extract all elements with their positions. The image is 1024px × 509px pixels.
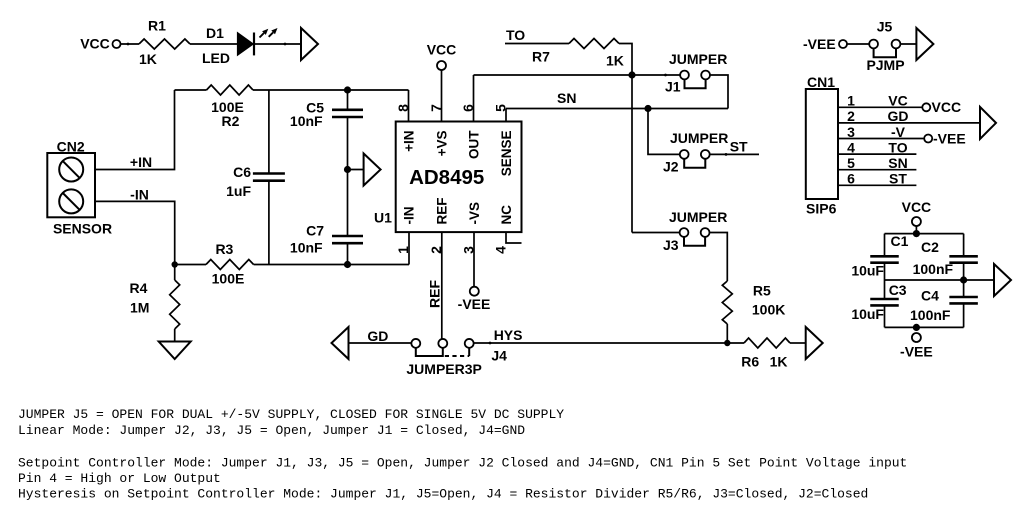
wire R2 to pin8	[253, 89, 409, 91]
wire +IN	[95, 90, 175, 170]
svg-text:1M: 1M	[130, 300, 149, 316]
junction C5/C7 ground	[344, 166, 351, 173]
junction top wire / C5	[344, 86, 351, 93]
svg-text:+IN: +IN	[402, 131, 417, 152]
svg-text:REF: REF	[427, 280, 443, 308]
wire R3 to pin1	[254, 264, 409, 266]
svg-text:JUMPER J5 = OPEN FOR DUAL +/-5: JUMPER J5 = OPEN FOR DUAL +/-5V SUPPLY, …	[18, 407, 564, 422]
wire J5 to ground	[900, 43, 916, 45]
ground (GD)	[332, 327, 349, 359]
svg-text:10nF: 10nF	[290, 240, 323, 256]
junction R5/HYS	[724, 340, 730, 346]
wire junction to ground	[348, 169, 364, 171]
pin mark (J1 left wire)	[664, 74, 667, 77]
jumper J5	[869, 40, 878, 49]
wire VCC to R1	[121, 43, 140, 45]
wire J1 to SN	[710, 75, 728, 109]
svg-text:J3: J3	[663, 237, 679, 253]
svg-text:C4: C4	[921, 288, 939, 304]
svg-text:JUMPER: JUMPER	[669, 51, 727, 67]
jumper J1	[680, 71, 689, 80]
wire cap mid rail	[885, 279, 964, 281]
svg-text:1: 1	[395, 246, 411, 254]
wire node to R3	[175, 264, 206, 266]
svg-text:JUMPER: JUMPER	[670, 130, 728, 146]
capacitor C7	[347, 170, 349, 236]
ground (mid)	[364, 154, 381, 186]
capacitor C1	[884, 234, 886, 256]
svg-text:GD: GD	[888, 108, 909, 124]
wire R7 to OUT net	[619, 44, 632, 233]
svg-text:C2: C2	[921, 239, 939, 255]
svg-text:CN1: CN1	[807, 74, 835, 90]
svg-text:U1: U1	[374, 210, 392, 226]
capacitor C5	[347, 90, 349, 109]
svg-text:SIP6: SIP6	[806, 201, 837, 217]
power terminal -VEE (CN1 pin3)	[924, 135, 932, 143]
svg-text:LED: LED	[202, 50, 230, 66]
resistor R4	[174, 265, 176, 281]
svg-text:VCC: VCC	[80, 36, 110, 52]
svg-text:-V: -V	[891, 124, 906, 140]
power terminal -VEE (caps)	[912, 333, 921, 342]
svg-text:R2: R2	[222, 113, 240, 129]
jumper3p J4 link 1-2 (closed)	[416, 348, 443, 356]
svg-text:-IN: -IN	[402, 207, 417, 225]
svg-text:+VS: +VS	[435, 131, 450, 157]
svg-text:C1: C1	[891, 233, 909, 249]
CN1 pin 1 (VC)	[838, 106, 922, 108]
svg-text:SENSOR: SENSOR	[53, 221, 112, 237]
pin mark (LED right)	[284, 43, 287, 46]
resistor R5	[722, 281, 732, 324]
ground (caps)	[994, 264, 1011, 296]
svg-text:6: 6	[460, 104, 476, 112]
wire D1 to ground	[254, 43, 301, 45]
wire VCC to rails	[915, 226, 917, 234]
CN1 pin 6 (ST)	[838, 184, 916, 186]
wire mid rail to ground	[964, 279, 994, 281]
svg-text:100E: 100E	[212, 271, 245, 287]
wire J2 to ST	[710, 153, 759, 155]
svg-text:PJMP: PJMP	[866, 57, 904, 73]
wire R4 to ground	[174, 329, 176, 342]
resistor R1	[139, 39, 190, 49]
svg-text:8: 8	[395, 104, 411, 112]
svg-text:100nF: 100nF	[910, 307, 951, 323]
svg-text:REF: REF	[435, 198, 450, 225]
svg-text:Linear Mode: Jumper J2, J3, J5: Linear Mode: Jumper J2, J3, J5 = Open, J…	[18, 423, 525, 438]
resistor R6	[744, 338, 790, 348]
pin mark (HYS wire)	[489, 342, 492, 345]
capacitor C2	[963, 234, 965, 256]
jumper3p J4 pin2	[438, 339, 447, 348]
svg-text:J1: J1	[665, 79, 681, 95]
svg-text:ST: ST	[889, 171, 907, 187]
junction -VEE rail	[913, 324, 920, 331]
svg-text:JUMPER: JUMPER	[669, 209, 727, 225]
svg-text:-IN: -IN	[130, 187, 149, 203]
ground (R6)	[806, 327, 823, 359]
wire J3 to R5	[710, 233, 728, 282]
svg-text:GD: GD	[367, 328, 388, 344]
svg-text:Pin 4 = High or Low Output: Pin 4 = High or Low Output	[18, 471, 221, 486]
U1 pin 3 (-VS)	[473, 232, 475, 287]
junction mid rail	[960, 276, 967, 283]
svg-text:C7: C7	[306, 223, 324, 239]
svg-text:10uF: 10uF	[851, 306, 884, 322]
svg-text:3: 3	[461, 246, 477, 254]
wire R5 to HYS	[726, 324, 728, 343]
svg-text:VCC: VCC	[932, 99, 962, 115]
U1 pin 6 (OUT)	[473, 75, 475, 122]
svg-text:VC: VC	[888, 93, 907, 109]
svg-text:1uF: 1uF	[226, 183, 251, 199]
jumper3p J4 link 2-3 (dashed)	[468, 348, 470, 356]
CN2 terminal 2	[59, 189, 83, 213]
op-amp U1 AD8495 body	[396, 122, 522, 233]
junction SN/J2	[644, 105, 651, 112]
svg-text:J2: J2	[663, 159, 679, 175]
wire R6 to ground	[790, 342, 806, 344]
svg-text:C3: C3	[889, 282, 907, 298]
svg-text:R4: R4	[130, 280, 148, 296]
svg-text:NC: NC	[499, 205, 514, 225]
node -IN/R3/R4	[172, 261, 178, 267]
svg-text:4: 4	[493, 246, 509, 254]
svg-text:7: 7	[428, 104, 444, 112]
svg-text:R3: R3	[215, 241, 233, 257]
svg-text:VCC: VCC	[427, 42, 457, 58]
wire TO to R7	[505, 43, 569, 45]
svg-text:TO: TO	[888, 139, 907, 155]
wire GD to J4	[349, 342, 412, 344]
capacitor C4	[963, 280, 965, 297]
wire cap bottom rail	[885, 326, 964, 328]
resistor R2	[207, 85, 254, 95]
svg-text:R1: R1	[148, 18, 166, 34]
svg-text:100nF: 100nF	[913, 261, 954, 277]
LED D1	[237, 33, 253, 56]
resistor R3	[206, 260, 254, 270]
connector CN1 body	[806, 89, 838, 199]
svg-text:-VEE: -VEE	[900, 344, 933, 360]
capacitor C3	[884, 280, 886, 299]
svg-text:1: 1	[847, 93, 855, 109]
ground (CN1 pin2)	[980, 107, 996, 139]
wire R1 to D1	[190, 43, 237, 45]
svg-text:R6: R6	[741, 354, 759, 370]
svg-text:+IN: +IN	[130, 154, 152, 170]
svg-text:-VEE: -VEE	[803, 36, 836, 52]
svg-text:-VEE: -VEE	[458, 296, 491, 312]
svg-text:JUMPER3P: JUMPER3P	[406, 361, 481, 377]
svg-text:-VS: -VS	[467, 202, 482, 225]
svg-text:AD8495: AD8495	[409, 166, 484, 189]
svg-text:-VEE: -VEE	[933, 131, 966, 147]
svg-text:OUT: OUT	[467, 130, 482, 159]
resistor R7	[569, 39, 619, 49]
svg-text:C6: C6	[233, 164, 251, 180]
svg-text:HYS: HYS	[494, 327, 523, 343]
svg-text:1K: 1K	[606, 53, 624, 69]
svg-text:3: 3	[847, 124, 855, 140]
U1 pin 1 (-IN)	[408, 232, 410, 265]
power terminal -VEE (pin3)	[470, 287, 479, 296]
svg-text:1K: 1K	[139, 51, 157, 67]
svg-text:TO: TO	[506, 27, 525, 43]
svg-text:ST: ST	[730, 139, 748, 155]
svg-text:2: 2	[847, 108, 855, 124]
wire SN (pin5)	[506, 108, 728, 110]
jumper J2	[680, 150, 689, 159]
svg-text:6: 6	[847, 171, 855, 187]
svg-text:CN2: CN2	[57, 139, 85, 155]
U1 pin 5 (SENSE)	[505, 109, 507, 122]
wire OUT to J3	[632, 232, 680, 234]
wire SN to J2	[648, 109, 680, 155]
U1 pin 7 (+VS)	[441, 70, 443, 122]
pin mark (ST wire)	[725, 153, 728, 156]
CN1 pin 3 (-V)	[838, 138, 924, 140]
svg-text:4: 4	[847, 139, 855, 155]
jumper3p J4 pin3	[465, 339, 474, 348]
junction OUT/R7	[628, 71, 635, 78]
svg-text:J5: J5	[877, 19, 893, 35]
CN1 pin 5 (SN)	[838, 169, 916, 171]
svg-text:5: 5	[847, 155, 855, 171]
svg-text:D1: D1	[206, 25, 224, 41]
svg-text:1K: 1K	[770, 354, 788, 370]
CN1 pin 2 (GD)	[838, 122, 980, 124]
CN2 terminal 1	[59, 158, 83, 182]
svg-text:10uF: 10uF	[851, 263, 884, 279]
ground (J5)	[916, 28, 933, 60]
wire -IN	[95, 201, 175, 264]
pin mark (R1 left)	[127, 43, 130, 46]
wire cap top rail	[885, 233, 964, 235]
ground (LED)	[301, 28, 318, 60]
junction bottom wire / C7	[344, 261, 351, 268]
svg-text:Setpoint Controller Mode: Jump: Setpoint Controller Mode: Jumper J1, J3,…	[18, 456, 907, 471]
U1 pin 8 (+IN)	[408, 90, 410, 122]
wire REF (pin2 to J4)	[441, 250, 443, 339]
svg-text:Hysteresis on Setpoint Control: Hysteresis on Setpoint Controller Mode: …	[18, 487, 868, 502]
power terminal VCC (CN1 pin1)	[922, 103, 930, 111]
svg-text:10nF: 10nF	[290, 113, 323, 129]
svg-text:100K: 100K	[752, 302, 785, 318]
CN1 pin 4 (TO)	[838, 153, 916, 155]
jumper J3	[680, 228, 689, 237]
svg-text:SENSE: SENSE	[499, 131, 514, 177]
wire HYS	[474, 342, 744, 344]
junction VCC rail	[913, 230, 920, 237]
svg-text:SN: SN	[557, 90, 576, 106]
wire -VEE to J5	[847, 43, 869, 45]
wire R2 left	[175, 89, 207, 91]
svg-text:SN: SN	[888, 155, 907, 171]
svg-text:J4: J4	[491, 348, 507, 364]
connector CN2 body	[47, 153, 95, 217]
U1 pin 4 (NC)	[506, 232, 522, 243]
svg-text:R5: R5	[753, 283, 771, 299]
wire OUT (pin6 to J1)	[474, 74, 681, 76]
jumper3p J4 pin1	[411, 339, 420, 348]
svg-text:R7: R7	[532, 49, 550, 65]
U1 pin 2 (REF)	[441, 232, 443, 250]
ground (R4)	[159, 342, 191, 360]
svg-text:VCC: VCC	[902, 199, 932, 215]
capacitor C6	[268, 90, 270, 173]
